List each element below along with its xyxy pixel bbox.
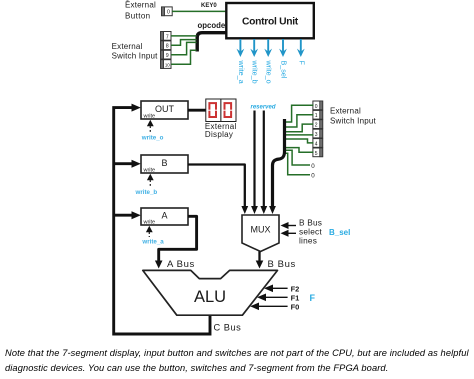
mux MUX1 — [242, 215, 279, 252]
register OUT — [141, 101, 188, 120]
svg-text:F: F — [297, 61, 306, 66]
svg-text:B_sel: B_sel — [280, 61, 289, 79]
register A — [141, 208, 188, 226]
wire B register to MUX — [188, 165, 245, 207]
switch SW3 — [313, 129, 323, 138]
svg-text:opcode: opcode — [198, 21, 226, 30]
svg-text:Switch Input: Switch Input — [112, 51, 159, 60]
svg-text:7: 7 — [166, 34, 169, 40]
svg-text:0: 0 — [315, 104, 318, 110]
arrowhead into B — [132, 160, 141, 168]
svg-text:reserved: reserved — [251, 104, 276, 110]
svg-text:write: write — [143, 168, 156, 174]
svg-text:0: 0 — [167, 10, 170, 16]
wire SW9 to opcode bus — [171, 42, 197, 54]
svg-text:F0: F0 — [291, 302, 300, 311]
svg-text:0: 0 — [311, 163, 315, 170]
switch SW5 — [313, 148, 323, 157]
switch SW10 — [161, 60, 171, 69]
svg-text:write: write — [143, 114, 156, 120]
control signal arrow F — [297, 39, 306, 66]
svg-text:F: F — [310, 293, 316, 303]
svg-text:9: 9 — [166, 53, 169, 59]
arrowhead B into MUX — [241, 206, 248, 214]
svg-text:0: 0 — [311, 173, 315, 180]
svg-text:2: 2 — [315, 123, 318, 129]
svg-text:write_a: write_a — [237, 60, 246, 84]
svg-text:8: 8 — [166, 44, 169, 50]
svg-text:External: External — [125, 0, 156, 9]
wire SW5 to bundle — [286, 148, 313, 153]
svg-text:5: 5 — [315, 151, 318, 157]
stray mark artifact — [127, 0, 129, 1]
bus switch bundle to MUX (thick) — [273, 119, 285, 207]
7-segment external display — [206, 99, 236, 122]
F2 arrow — [264, 284, 299, 293]
svg-text:4: 4 — [315, 141, 318, 147]
push-button switch KEY0 — [162, 7, 173, 16]
arrowhead into OUT — [132, 104, 141, 112]
svg-text:F1: F1 — [291, 293, 300, 302]
digit 0 (left) — [209, 103, 216, 117]
svg-text:Button: Button — [125, 11, 151, 20]
svg-text:write_o: write_o — [265, 60, 274, 84]
arrowhead into A — [132, 211, 141, 219]
note text — [5, 346, 474, 376]
wire branch to A register — [114, 214, 132, 217]
wire constant 0 (second) — [286, 153, 311, 174]
wire KEY0 to Control Unit — [172, 10, 227, 12]
wire C-bus feedback riser (left) — [114, 108, 210, 334]
arrowhead A Bus into ALU — [155, 261, 163, 269]
svg-text:lines: lines — [299, 236, 317, 246]
svg-text:B Bus: B Bus — [268, 259, 296, 270]
B Bus select arrow 2 — [281, 230, 297, 237]
arrowhead bundle into MUX — [269, 206, 276, 214]
switch SW4 — [313, 139, 323, 148]
control signal arrow write_a — [237, 39, 246, 84]
svg-text:write_b: write_b — [251, 60, 260, 84]
svg-text:ALU: ALU — [194, 288, 226, 306]
svg-text:write_a: write_a — [141, 239, 164, 246]
write_b dotted arrow — [135, 174, 158, 196]
wire SW2 to bundle — [286, 124, 313, 132]
wire SW1 to bundle — [286, 115, 313, 127]
bus opcode (thick) — [197, 33, 227, 52]
wire SW4 to bundle — [286, 139, 313, 143]
switch SW2 — [313, 120, 323, 129]
switch SW8 — [161, 41, 171, 50]
svg-text:write_b: write_b — [135, 189, 158, 196]
F0 arrow — [250, 302, 299, 311]
switch SW1 — [313, 110, 323, 119]
switch SW7 — [161, 32, 171, 41]
write_o dotted arrow — [141, 120, 164, 142]
svg-text:B: B — [161, 158, 167, 168]
svg-text:F2: F2 — [291, 284, 300, 293]
alu ALU1 — [143, 270, 278, 315]
svg-text:write: write — [143, 220, 156, 226]
register B — [141, 155, 188, 174]
arrowhead reserved 1 into MUX — [251, 206, 258, 214]
arrowhead reserved 2 into MUX — [260, 206, 267, 214]
svg-text:B_sel: B_sel — [329, 228, 350, 237]
svg-text:External: External — [112, 42, 143, 51]
control signal arrow write_o — [264, 39, 273, 84]
control unit U1 — [226, 3, 313, 38]
svg-text:OUT: OUT — [155, 104, 175, 114]
wire MUX to ALU (B Bus) — [258, 252, 260, 262]
svg-text:C Bus: C Bus — [214, 323, 242, 333]
svg-text:write_o: write_o — [141, 135, 164, 142]
switch SW0 (right stack) — [313, 101, 323, 110]
wire SW8 to opcode bus — [171, 40, 197, 46]
digit 0 (right) — [225, 103, 232, 117]
wire reserved 1 — [253, 111, 255, 207]
wire OUT to display (thick) — [188, 109, 206, 112]
F1 arrow — [257, 293, 299, 302]
svg-text:Switch Input: Switch Input — [330, 116, 377, 125]
wire SW10 to opcode bus — [171, 50, 197, 64]
svg-text:1: 1 — [315, 113, 318, 119]
svg-text:Control Unit: Control Unit — [242, 17, 299, 28]
svg-text:Display: Display — [205, 130, 233, 139]
svg-text:A: A — [161, 211, 167, 221]
arrowhead B Bus into ALU — [256, 261, 264, 269]
wire SW3 to bundle — [286, 134, 313, 136]
control signal arrow B_sel — [279, 39, 288, 79]
svg-text:MUX: MUX — [251, 225, 271, 235]
wire constant 0 (first) — [286, 150, 310, 165]
wire A register to ALU (A Bus) — [159, 216, 197, 261]
svg-text:External: External — [330, 107, 361, 116]
switch SW9 — [161, 50, 171, 59]
svg-text:3: 3 — [315, 132, 318, 138]
write_a dotted arrow — [141, 226, 164, 246]
B Bus select arrow 1 — [281, 222, 297, 229]
svg-text:10: 10 — [165, 62, 170, 67]
svg-text:KEY0: KEY0 — [201, 3, 217, 9]
wire branch to B register — [114, 162, 132, 165]
control signal arrow write_b — [250, 39, 259, 84]
wire SW0 to bundle — [286, 105, 313, 122]
svg-text:A Bus: A Bus — [167, 259, 195, 270]
wire SW7 to opcode bus — [171, 35, 197, 37]
wire reserved 2 — [263, 111, 265, 207]
